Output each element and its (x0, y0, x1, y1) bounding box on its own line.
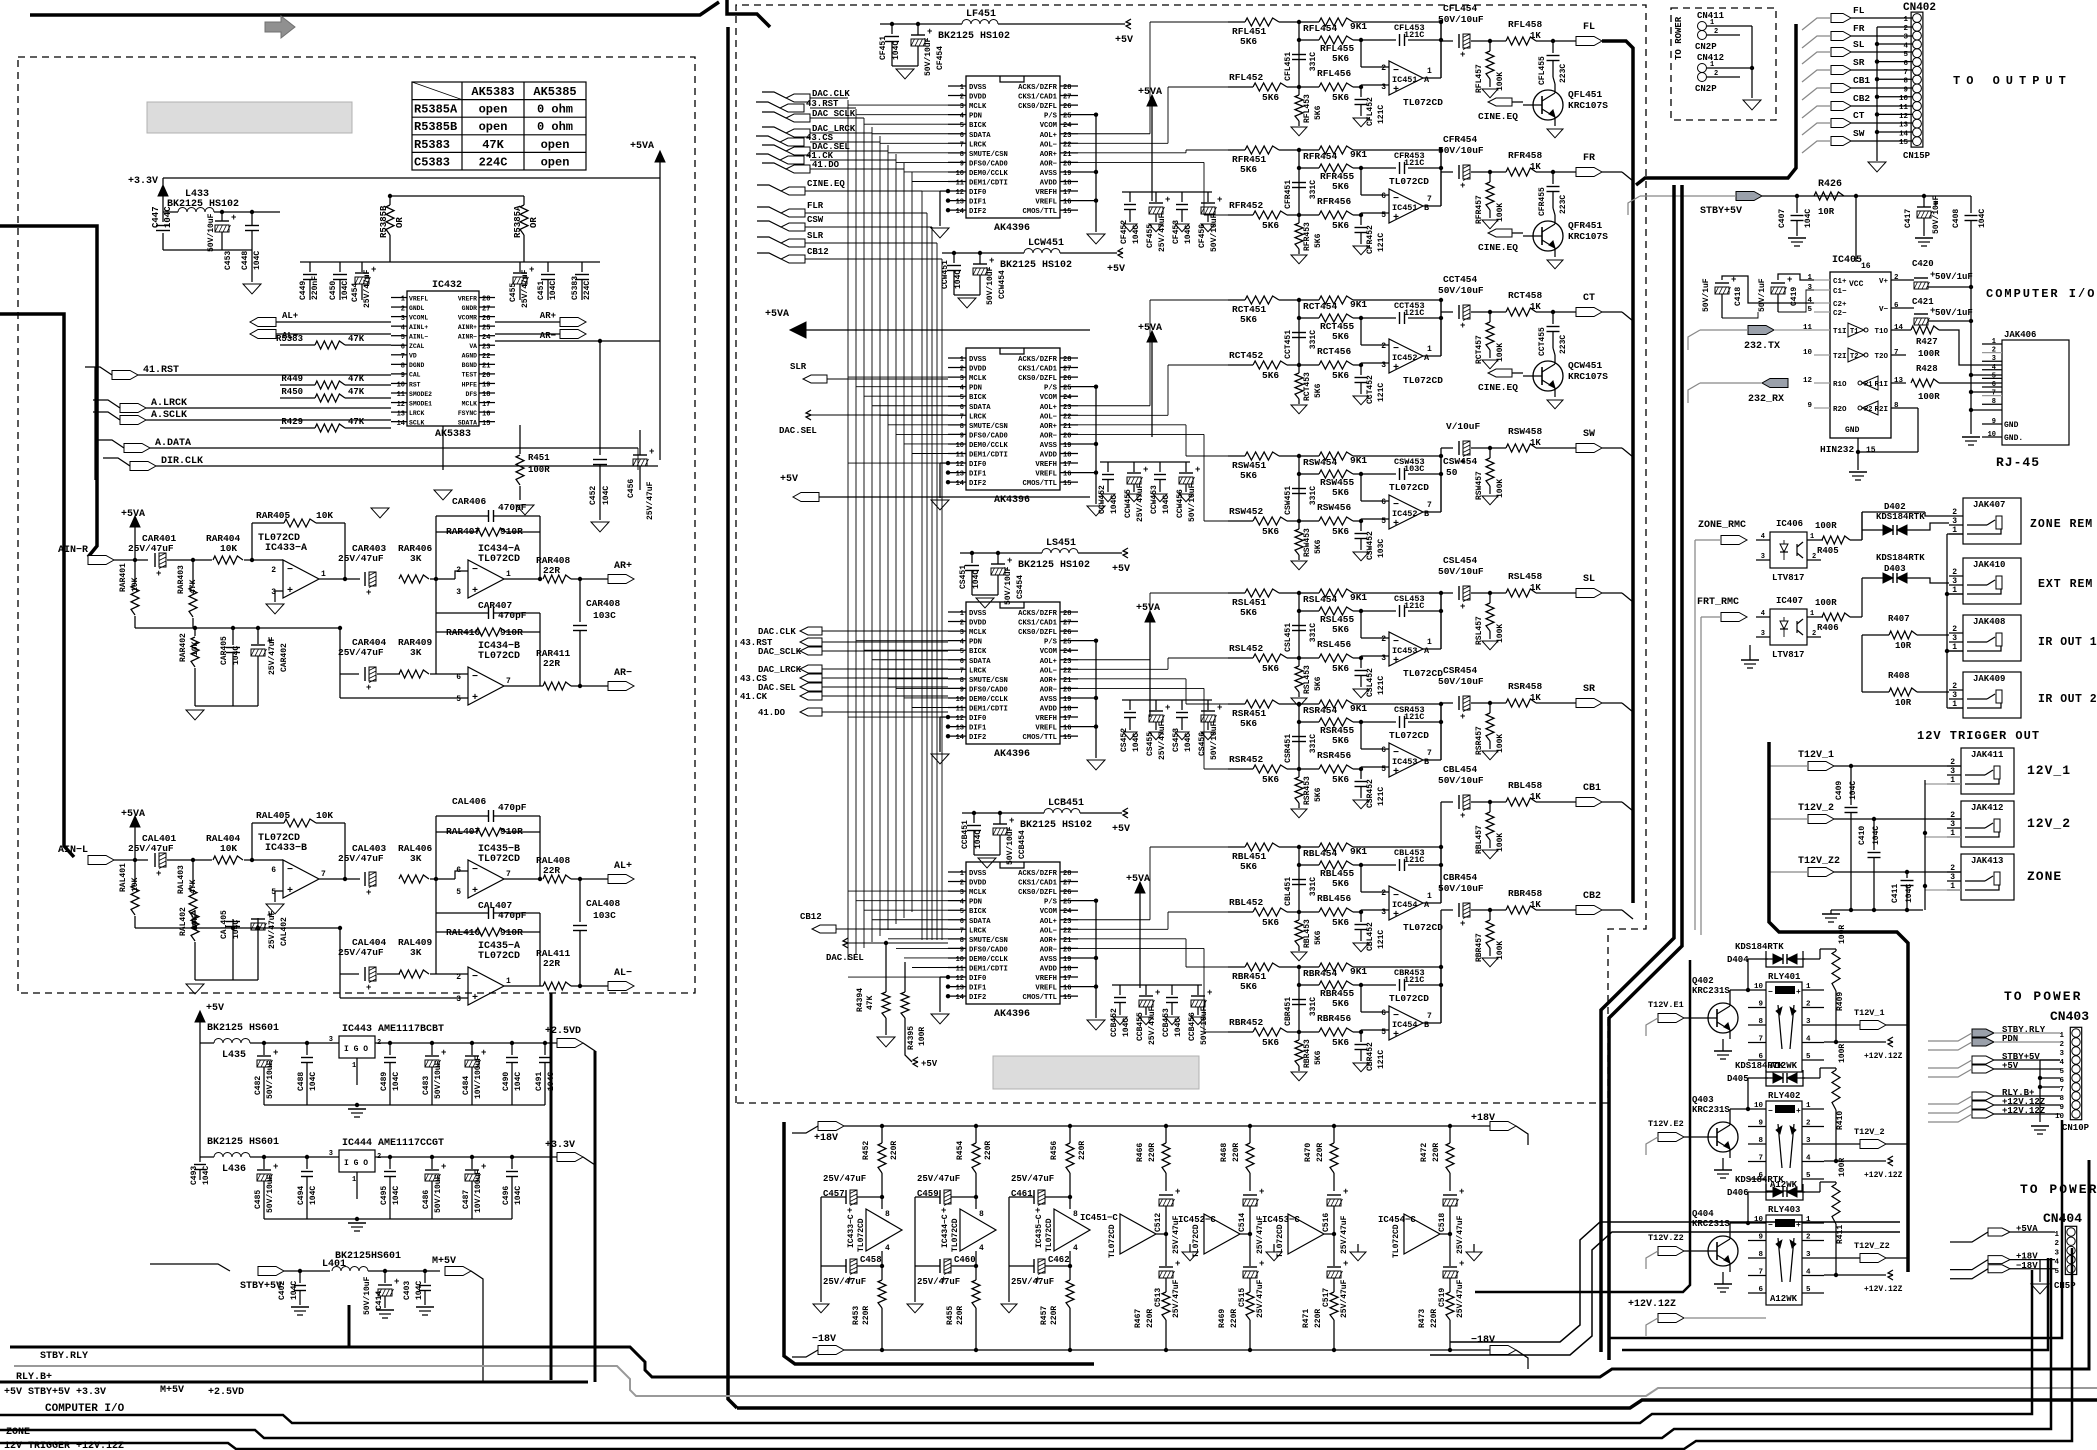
svg-text:TL072CD: TL072CD (1389, 176, 1429, 187)
svg-text:T12V_2: T12V_2 (1854, 1127, 1885, 1137)
svg-text:T12V_1: T12V_1 (1854, 1008, 1885, 1018)
svg-text:VCOM: VCOM (1040, 648, 1057, 656)
svg-text:−: − (1768, 1107, 1773, 1116)
svg-text:RBL456: RBL456 (1317, 893, 1352, 904)
svg-text:TO POWER: TO POWER (2004, 989, 2082, 1004)
svg-text:25: 25 (482, 324, 490, 332)
svg-text:104C: 104C (1905, 884, 1914, 903)
svg-text:24: 24 (1063, 908, 1071, 916)
svg-text:CT: CT (1853, 110, 1865, 121)
svg-text:11: 11 (1803, 324, 1813, 332)
svg-text:2: 2 (1806, 1234, 1811, 1242)
svg-text:C448: C448 (241, 251, 250, 270)
svg-text:25V/47uF: 25V/47uF (338, 947, 384, 958)
svg-text:5K6: 5K6 (1314, 233, 1323, 248)
svg-text:CBR452: CBR452 (1366, 1042, 1375, 1071)
svg-text:1: 1 (960, 356, 964, 364)
svg-text:1: 1 (1992, 338, 1996, 346)
svg-text:GND: GND (1845, 426, 1860, 435)
svg-text:T12V.E1: T12V.E1 (1648, 1000, 1684, 1010)
svg-text:5: 5 (960, 394, 964, 402)
svg-text:IR OUT 2: IR OUT 2 (2038, 693, 2097, 706)
svg-text:+: + (1343, 1259, 1348, 1269)
svg-text:DVSS: DVSS (969, 84, 987, 92)
svg-text:3: 3 (1807, 284, 1812, 292)
svg-text:CSW452: CSW452 (1366, 531, 1375, 560)
svg-text:25V/47uF: 25V/47uF (521, 269, 530, 308)
svg-text:IC452: IC452 (1392, 509, 1418, 519)
svg-text:5K6: 5K6 (1262, 774, 1279, 785)
svg-text:25V/47uF: 25V/47uF (1148, 1006, 1157, 1045)
svg-text:VCC: VCC (1849, 280, 1864, 289)
svg-text:+: + (366, 683, 371, 693)
svg-text:AK4396: AK4396 (994, 1009, 1030, 1020)
svg-text:P/S: P/S (1044, 385, 1058, 393)
svg-text:+: + (1009, 816, 1014, 826)
svg-text:R409: R409 (1836, 992, 1845, 1011)
svg-text:3: 3 (960, 889, 964, 897)
svg-text:9: 9 (960, 686, 964, 694)
svg-text:−: − (472, 865, 478, 876)
svg-text:470pF: 470pF (498, 802, 527, 813)
svg-text:3: 3 (1903, 34, 1908, 42)
svg-text:121C: 121C (1404, 712, 1424, 722)
svg-text:AOR+: AOR+ (1040, 151, 1057, 159)
svg-text:CCW455: CCW455 (1124, 489, 1133, 518)
svg-text:12V TRIGGER OUT: 12V TRIGGER OUT (1917, 729, 2040, 743)
svg-text:223C: 223C (1559, 64, 1568, 83)
svg-text:8: 8 (979, 1210, 984, 1219)
svg-text:CB1: CB1 (1853, 75, 1870, 86)
svg-text:RCT456: RCT456 (1317, 346, 1352, 357)
svg-text:21: 21 (482, 363, 490, 371)
svg-text:5K6: 5K6 (1240, 314, 1257, 325)
svg-text:MCLK: MCLK (969, 889, 987, 897)
svg-text:121C: 121C (1404, 30, 1424, 40)
svg-text:DFS0/CAD0: DFS0/CAD0 (969, 686, 1008, 694)
svg-text:DFS0/CAD0: DFS0/CAD0 (969, 946, 1008, 954)
svg-text:7: 7 (1427, 1012, 1432, 1021)
svg-text:CSR451: CSR451 (1284, 734, 1293, 763)
svg-text:2: 2 (960, 94, 964, 102)
svg-text:TL072CD: TL072CD (478, 854, 520, 865)
svg-text:C418: C418 (1734, 287, 1743, 306)
svg-text:CSR452: CSR452 (1366, 779, 1375, 808)
svg-text:B: B (1424, 757, 1429, 767)
svg-text:IC454: IC454 (1392, 900, 1418, 910)
svg-text:IR OUT 1: IR OUT 1 (2038, 636, 2097, 649)
svg-text:HPFE: HPFE (462, 381, 478, 388)
svg-text:RAR401: RAR401 (119, 563, 128, 592)
svg-text:100R: 100R (1918, 349, 1940, 359)
svg-text:CSL452: CSL452 (1366, 668, 1375, 697)
svg-text:CFR452: CFR452 (1366, 225, 1375, 254)
svg-text:T12V.Z2: T12V.Z2 (1648, 1233, 1684, 1243)
svg-text:1: 1 (2054, 1231, 2059, 1239)
svg-text:22R: 22R (543, 958, 560, 969)
svg-text:104C: 104C (163, 206, 173, 228)
svg-text:CBL451: CBL451 (1284, 877, 1293, 906)
svg-text:DEM1/CDTI: DEM1/CDTI (969, 706, 1008, 714)
svg-text:50: 50 (1446, 467, 1458, 478)
svg-text:+: + (1393, 213, 1399, 224)
svg-text:KDS184RTK: KDS184RTK (1876, 512, 1925, 522)
svg-text:4: 4 (960, 113, 964, 121)
svg-text:9: 9 (960, 160, 964, 168)
svg-text:104C: 104C (602, 486, 611, 505)
svg-text:5K6: 5K6 (1314, 930, 1323, 945)
svg-text:C462: C462 (1048, 1255, 1070, 1265)
svg-text:1K: 1K (1530, 900, 1541, 910)
svg-text:RAR402: RAR402 (179, 633, 188, 662)
svg-text:VREFL: VREFL (1035, 471, 1057, 479)
svg-text:6: 6 (1894, 302, 1899, 310)
svg-text:T2I: T2I (1833, 353, 1847, 361)
svg-text:220R: 220R (890, 1141, 899, 1160)
svg-text:100R: 100R (1838, 1044, 1847, 1063)
svg-text:+: + (287, 586, 293, 597)
svg-text:10V/100uF: 10V/100uF (474, 1056, 483, 1099)
svg-text:AOL−: AOL− (1040, 667, 1057, 675)
svg-text:25V/47uF: 25V/47uF (1011, 1174, 1054, 1184)
svg-text:100K: 100K (1496, 203, 1505, 222)
svg-text:10K: 10K (316, 810, 333, 821)
svg-text:R5385A: R5385A (414, 103, 458, 117)
svg-text:6: 6 (2059, 1077, 2064, 1085)
svg-text:3: 3 (1381, 361, 1386, 370)
svg-text:RSW454: RSW454 (1303, 457, 1338, 468)
svg-text:2: 2 (960, 880, 964, 888)
svg-text:−: − (287, 565, 293, 576)
svg-text:IC451: IC451 (1392, 75, 1418, 85)
svg-text:AIN−R: AIN−R (58, 545, 88, 556)
svg-text:CFL454: CFL454 (1443, 3, 1478, 14)
svg-text:6: 6 (271, 866, 276, 875)
svg-text:RSL458: RSL458 (1508, 571, 1543, 582)
svg-text:JAK407: JAK407 (1973, 500, 2005, 510)
svg-text:1: 1 (1806, 1102, 1811, 1110)
svg-text:12: 12 (1803, 377, 1813, 385)
svg-text:AOL+: AOL+ (1040, 404, 1057, 412)
svg-text:RFR452: RFR452 (1229, 200, 1264, 211)
svg-text:3: 3 (960, 103, 964, 111)
svg-text:5: 5 (456, 888, 461, 897)
svg-text:AK5383: AK5383 (471, 85, 514, 99)
svg-text:5K6: 5K6 (1262, 917, 1279, 928)
svg-text:5K6: 5K6 (1332, 998, 1349, 1009)
svg-text:T12V_1: T12V_1 (1798, 750, 1834, 761)
svg-text:50V/10uF: 50V/10uF (1004, 566, 1013, 605)
svg-text:6: 6 (1381, 1009, 1386, 1018)
svg-text:LCW451: LCW451 (1028, 238, 1064, 249)
svg-text:7: 7 (1894, 349, 1899, 357)
svg-text:1: 1 (1807, 274, 1812, 282)
svg-text:11: 11 (956, 966, 964, 974)
svg-text:41.CK: 41.CK (740, 692, 768, 702)
svg-text:100R: 100R (1838, 1158, 1847, 1177)
svg-text:11: 11 (397, 391, 405, 399)
svg-text:121C: 121C (1377, 676, 1386, 695)
svg-text:11: 11 (1899, 104, 1909, 112)
svg-text:23: 23 (1063, 132, 1071, 140)
svg-text:AOL+: AOL+ (1040, 918, 1057, 926)
svg-text:1K: 1K (1530, 31, 1541, 41)
svg-text:24: 24 (1063, 122, 1071, 130)
svg-text:50V/10uF: 50V/10uF (986, 266, 995, 305)
svg-text:VD: VD (409, 353, 417, 360)
svg-text:ACKS/DZFR: ACKS/DZFR (1018, 356, 1058, 364)
svg-text:1K: 1K (1530, 583, 1541, 593)
svg-text:RSW453: RSW453 (1303, 528, 1312, 557)
svg-text:7: 7 (506, 870, 511, 879)
svg-text:R470: R470 (1304, 1143, 1313, 1162)
svg-text:+: + (156, 569, 161, 579)
svg-text:CF454: CF454 (936, 46, 945, 70)
svg-text:50V/10uF: 50V/10uF (1210, 213, 1219, 252)
svg-text:SDATA: SDATA (969, 918, 991, 926)
svg-text:27: 27 (482, 305, 490, 313)
svg-text:14: 14 (1894, 324, 1904, 332)
svg-text:−: − (472, 565, 478, 576)
svg-text:RFR456: RFR456 (1317, 196, 1352, 207)
svg-text:R453: R453 (852, 1306, 861, 1325)
svg-text:SMODE1: SMODE1 (409, 400, 432, 407)
svg-text:5: 5 (1806, 1053, 1811, 1061)
svg-text:C512: C512 (1154, 1213, 1163, 1232)
svg-text:CS455: CS455 (1146, 732, 1155, 756)
svg-text:CFL451: CFL451 (1284, 52, 1293, 81)
svg-text:12: 12 (956, 461, 964, 469)
svg-text:+5V: +5V (206, 1003, 224, 1014)
svg-text:6: 6 (1381, 192, 1386, 201)
svg-text:R5385B: R5385B (414, 120, 457, 134)
svg-text:CAL408: CAL408 (586, 898, 621, 909)
svg-text:−18V: −18V (1471, 1335, 1495, 1346)
svg-text:220R: 220R (862, 1306, 871, 1325)
svg-text:DEM0/CCLK: DEM0/CCLK (969, 956, 1009, 964)
svg-text:T2: T2 (1850, 353, 1858, 361)
svg-text:5: 5 (1807, 306, 1812, 314)
svg-text:CCT455: CCT455 (1538, 327, 1547, 356)
svg-text:C447: C447 (151, 206, 161, 228)
svg-text:5K6: 5K6 (1332, 92, 1349, 103)
svg-text:CFR455: CFR455 (1538, 187, 1547, 216)
svg-text:I G O: I G O (344, 1045, 368, 1054)
svg-text:TL072CD: TL072CD (1403, 97, 1443, 108)
svg-text:A12WK: A12WK (1770, 1294, 1798, 1304)
svg-text:LRCK: LRCK (409, 410, 425, 417)
svg-text:1: 1 (321, 570, 326, 579)
svg-text:VCOM: VCOM (1040, 394, 1057, 402)
svg-text:CF455: CF455 (1146, 224, 1155, 248)
svg-text:CFR451: CFR451 (1284, 180, 1293, 209)
svg-text:C515: C515 (1238, 1288, 1247, 1307)
svg-text:104C: 104C (415, 1281, 424, 1300)
svg-text:CINE.EQ: CINE.EQ (1478, 111, 1518, 122)
svg-text:AR−: AR− (540, 331, 556, 341)
svg-text:5K6: 5K6 (1262, 370, 1279, 381)
svg-text:L436: L436 (222, 1164, 246, 1175)
svg-text:9K1: 9K1 (1350, 149, 1367, 160)
svg-text:KRC231S: KRC231S (1692, 1219, 1730, 1229)
svg-text:JAK412: JAK412 (1971, 803, 2003, 813)
svg-text:KDS184RTK: KDS184RTK (1735, 942, 1784, 952)
svg-text:RBR454: RBR454 (1303, 968, 1338, 979)
svg-text:AR+: AR+ (540, 311, 556, 321)
svg-text:22: 22 (482, 353, 490, 361)
svg-text:GNDL: GNDL (409, 305, 425, 312)
svg-text:FL: FL (1583, 22, 1595, 33)
svg-text:A: A (1424, 75, 1430, 85)
svg-text:JAK406: JAK406 (2004, 330, 2036, 340)
svg-text:1: 1 (1427, 345, 1432, 354)
svg-text:+: + (1143, 465, 1148, 475)
svg-text:C494: C494 (297, 1186, 306, 1205)
svg-text:22: 22 (1063, 927, 1071, 935)
svg-text:RSR452: RSR452 (1229, 754, 1264, 765)
svg-text:104C: 104C (341, 281, 350, 300)
svg-text:23: 23 (1063, 658, 1071, 666)
svg-text:BK2125 HS102: BK2125 HS102 (938, 31, 1010, 42)
svg-text:AVSS: AVSS (1040, 442, 1058, 450)
svg-text:121C: 121C (1404, 855, 1424, 865)
svg-text:T1: T1 (1850, 328, 1858, 336)
svg-text:5K6: 5K6 (1332, 774, 1349, 785)
svg-text:DFS0/CAD0: DFS0/CAD0 (969, 432, 1008, 440)
svg-text:KDS184RTK: KDS184RTK (1876, 553, 1925, 563)
svg-text:2: 2 (1992, 347, 1996, 355)
svg-text:12V_1: 12V_1 (2027, 763, 2071, 778)
svg-text:R408: R408 (1888, 671, 1910, 681)
svg-text:1: 1 (2059, 1032, 2064, 1040)
svg-text:5K6: 5K6 (1332, 526, 1349, 537)
svg-text:I G O: I G O (344, 1159, 368, 1168)
svg-text:3: 3 (1806, 1251, 1811, 1259)
svg-text:COMPUTER I/O: COMPUTER I/O (1986, 287, 2096, 301)
svg-text:CT: CT (1583, 293, 1595, 304)
svg-text:BK2125HS601: BK2125HS601 (335, 1251, 401, 1262)
svg-text:VREFL: VREFL (1035, 725, 1057, 733)
svg-text:5: 5 (1806, 1286, 1811, 1294)
svg-text:AOR−: AOR− (1040, 946, 1057, 954)
svg-text:CCW454: CCW454 (998, 270, 1007, 299)
svg-text:R2I: R2I (1874, 406, 1888, 414)
svg-text:220R: 220R (1230, 1309, 1239, 1328)
svg-text:C407: C407 (1778, 209, 1787, 228)
svg-text:50V/10uF: 50V/10uF (1200, 1006, 1209, 1045)
svg-text:5K6: 5K6 (1332, 53, 1349, 64)
svg-text:R454: R454 (956, 1141, 965, 1160)
svg-text:DVDD: DVDD (969, 366, 987, 374)
svg-text:17: 17 (1063, 715, 1071, 723)
svg-text:DIF1: DIF1 (969, 725, 987, 733)
svg-text:3: 3 (1381, 83, 1386, 92)
svg-text:TL072CD: TL072CD (478, 951, 520, 962)
svg-text:2: 2 (1950, 864, 1955, 873)
svg-text:VA: VA (469, 343, 477, 350)
svg-text:B: B (1424, 509, 1429, 519)
svg-text:DVSS: DVSS (969, 356, 987, 364)
svg-text:RBL453: RBL453 (1303, 919, 1312, 948)
svg-text:TL072CD: TL072CD (1392, 1224, 1401, 1258)
svg-text:C409: C409 (1835, 781, 1844, 800)
svg-text:+12V.12Z: +12V.12Z (1864, 1285, 1903, 1294)
svg-text:R411: R411 (1836, 1225, 1845, 1244)
svg-text:3: 3 (2054, 1249, 2059, 1257)
svg-text:15: 15 (1063, 208, 1071, 216)
svg-text:41.DO: 41.DO (758, 708, 786, 718)
svg-text:RFL452: RFL452 (1229, 72, 1264, 83)
svg-text:104C: 104C (1872, 826, 1881, 845)
svg-text:CKS1/CAD1: CKS1/CAD1 (1018, 366, 1058, 374)
svg-text:23: 23 (1063, 918, 1071, 926)
svg-text:open: open (479, 120, 508, 134)
svg-text:11: 11 (956, 452, 964, 460)
svg-text:3: 3 (1952, 691, 1957, 700)
svg-text:TO OUTPUT: TO OUTPUT (1953, 74, 2072, 88)
svg-text:TL072CD: TL072CD (478, 651, 520, 662)
svg-text:R5385B: R5385B (379, 205, 389, 238)
svg-text:10: 10 (956, 956, 964, 964)
svg-text:T2O: T2O (1874, 353, 1888, 361)
svg-text:DIF0: DIF0 (969, 715, 986, 723)
svg-text:P/S: P/S (1044, 639, 1058, 647)
svg-text:DVSS: DVSS (969, 870, 987, 878)
svg-text:8: 8 (1758, 1018, 1763, 1026)
svg-text:RFL453: RFL453 (1303, 94, 1312, 123)
svg-text:TL072CD: TL072CD (1403, 375, 1443, 386)
svg-text:18: 18 (1063, 452, 1071, 460)
svg-text:R5385A: R5385A (513, 205, 523, 238)
svg-text:7: 7 (1758, 1036, 1763, 1044)
svg-text:26: 26 (1063, 889, 1071, 897)
svg-text:5K6: 5K6 (1314, 539, 1323, 554)
svg-text:6: 6 (1758, 1286, 1763, 1294)
svg-text:CB2: CB2 (1853, 93, 1870, 104)
svg-text:DIF2: DIF2 (969, 734, 986, 742)
svg-text:SDATA: SDATA (969, 132, 991, 140)
svg-text:27: 27 (1063, 880, 1071, 888)
svg-text:104C: 104C (892, 41, 901, 60)
svg-text:5K6: 5K6 (1332, 1037, 1349, 1048)
svg-text:50V/10uF: 50V/10uF (266, 1174, 275, 1213)
svg-text:+: + (1460, 712, 1465, 722)
svg-text:GND.: GND. (2004, 434, 2023, 443)
svg-text:PDN: PDN (969, 899, 982, 907)
svg-text:5K6: 5K6 (1262, 1037, 1279, 1048)
svg-text:5: 5 (1381, 517, 1386, 526)
svg-text:22R: 22R (543, 658, 560, 669)
svg-text:AVDD: AVDD (1040, 966, 1058, 974)
svg-text:25V/47uF: 25V/47uF (823, 1277, 866, 1287)
svg-text:FR: FR (1853, 23, 1865, 34)
svg-text:2: 2 (377, 1153, 381, 1161)
svg-text:CAR406: CAR406 (452, 496, 487, 507)
svg-text:CN2P: CN2P (1695, 42, 1717, 52)
svg-text:10: 10 (956, 170, 964, 178)
svg-text:ACKS/DZFR: ACKS/DZFR (1018, 610, 1058, 618)
svg-text:CBR451: CBR451 (1284, 997, 1293, 1026)
svg-text:7: 7 (401, 353, 405, 361)
svg-text:AOR+: AOR+ (1040, 677, 1057, 685)
svg-text:CBL452: CBL452 (1366, 922, 1375, 951)
svg-text:KRC231S: KRC231S (1692, 986, 1730, 996)
svg-text:25V/47uF: 25V/47uF (917, 1174, 960, 1184)
svg-text:220R: 220R (1078, 1141, 1087, 1160)
svg-text:IC432: IC432 (432, 280, 462, 291)
svg-text:6: 6 (960, 132, 964, 140)
svg-text:T12V.E2: T12V.E2 (1648, 1119, 1684, 1129)
